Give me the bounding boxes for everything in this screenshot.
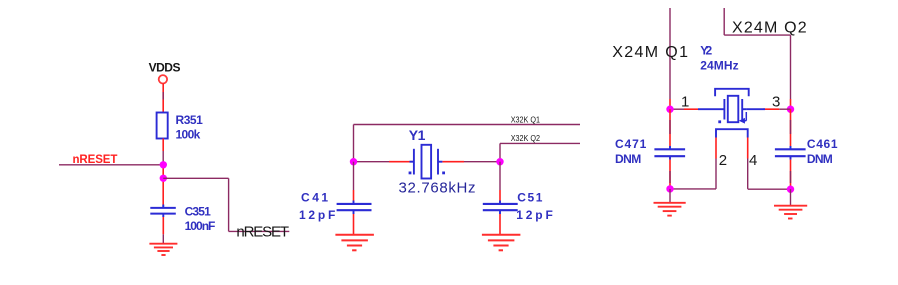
wire C351 to ground [162,234,164,243]
pin stub above junction 1 [669,99,671,109]
junction A [160,161,167,168]
pin 3 of Y2 (red) [763,108,791,110]
crystal Y2 [698,89,765,138]
pin of C51 (bottom) [499,214,501,235]
wire X24M Q1 (vertical from top) [669,8,671,99]
ground (left X24M) [654,203,686,216]
svg-text:100nF: 100nF [185,219,216,233]
svg-text:32.768kHz: 32.768kHz [399,180,476,197]
pin of R351 (bottom) [162,139,164,152]
junction B [160,175,167,182]
ground (C351) [149,244,177,255]
pin number 2 [719,152,727,169]
wire X24M Q2 (vertical from top) [723,8,725,35]
resistor R351 [157,113,168,139]
pin number 3 [772,93,780,110]
junction pin 1 [666,106,673,113]
capacitor C351 [150,205,176,218]
pin of Y1 (right) [442,161,464,163]
wire VDDS to R351 [162,92,164,100]
svg-text:C461: C461 [807,137,838,151]
pin 2 of Y2 (red) [715,138,717,159]
wire X24M Q2 (horizontal) [724,34,790,36]
pin of C351 (bottom) [162,217,164,234]
wire nRESET stub (vertical) [228,178,230,231]
svg-text:2: 2 [719,152,727,169]
pin of C41 (bottom) [353,214,355,235]
wire junction B to nRESET stub (horizontal) [163,177,228,179]
ground (C41) [335,235,374,251]
wire pin4 down [747,159,749,189]
wire left dot to C41 [353,162,355,190]
svg-text:24MHz: 24MHz [700,59,738,73]
svg-text:VDDS: VDDS [149,61,181,75]
svg-text:nRESET: nRESET [236,223,289,240]
net label X32K Q1 [511,114,541,124]
wire Y1 to right dot [464,161,500,163]
pin number 1 [681,93,689,110]
svg-text:C471: C471 [615,137,647,151]
svg-text:1: 1 [681,93,689,110]
wire X32K Q1 (vertical) [353,125,355,162]
pin of R351 (top) [162,83,164,112]
wire X24M Q2 (vertical to pin 3) [790,35,792,99]
wire nRESET horizontal [59,164,163,166]
wire bottom right horizontal [748,188,791,190]
wire X32K Q2 (vertical) [499,143,501,161]
label C351 100nF [185,204,216,233]
junction right (X32K) [496,158,503,165]
capacitor C51 [483,201,518,215]
svg-text:Y2: Y2 [700,44,712,58]
pin of C51 (top) [499,190,501,201]
net label X32K Q2 [511,133,541,143]
power symbol VDDS [159,75,167,83]
wire nRESET stub (bottom horizontal) [229,230,290,232]
svg-text:Y1: Y1 [409,127,426,143]
svg-text:3: 3 [772,93,780,110]
net label VDDS [149,61,181,75]
label Y2 24MHz [700,44,738,73]
wire right dot to C51 [499,162,501,190]
polarity dot right (Y1) [442,172,445,175]
pin stub above junction 3 [790,99,792,109]
pin 4 of Y2 (red) [747,138,749,159]
svg-text:12pF: 12pF [516,208,553,222]
svg-text:C51: C51 [517,191,542,205]
capacitor C471 [654,146,685,160]
svg-text:4: 4 [749,152,757,169]
polarity dot left (Y1) [409,172,412,175]
wire X32K Q1 (horizontal) [354,124,581,126]
net label X24M Q1 [612,44,688,61]
svg-text:R351: R351 [176,113,204,127]
svg-text:X24M Q2: X24M Q2 [732,19,807,36]
capacitor C461 [775,109,806,159]
svg-text:X24M Q1: X24M Q1 [612,44,688,61]
label C471 DNM [615,137,647,166]
net label nRESET (black) [236,223,289,240]
wire X32K Q2 (horizontal) [500,142,580,144]
wire to left ground [669,189,671,203]
wire left dot to Y1 [354,161,390,163]
capacitor C41 [337,201,372,215]
label Y1 [409,127,426,143]
wire to right ground [790,189,792,205]
pin number 4 [749,152,757,169]
junction (left bottom) [666,185,673,192]
polarity arrow (Y2) [741,112,747,122]
wire C461 to junction [790,160,792,190]
wire C471 to junction [669,160,671,189]
pin 1 of Y2 (red) [670,108,698,110]
svg-text:DNM: DNM [615,152,641,166]
svg-text:X32K Q1: X32K Q1 [511,114,541,124]
polarity dot (Y2) [718,120,721,123]
junction left (X32K) [350,158,357,165]
pin of C41 (top) [353,190,355,201]
junction pin 3 [787,106,794,113]
label C51 12pF [516,191,553,223]
ground (C51) [482,235,521,251]
label 32.768kHz [399,180,476,197]
wire R351 to junction [162,151,164,162]
net label nRESET (red) [73,154,118,166]
ground (right X24M) [774,206,807,219]
pin of Y1 (left) [389,161,414,163]
svg-text:C41: C41 [301,191,328,205]
svg-text:DNM: DNM [807,152,833,166]
svg-text:100k: 100k [176,128,201,142]
label C41 12pF [299,191,335,223]
wire junction1 to C471 [669,109,671,146]
label R351 100k [176,113,204,142]
wire between junctions [162,162,164,208]
crystal Y1 [410,145,443,179]
wire bottom left horizontal [670,188,716,190]
junction (right bottom) [787,186,794,193]
svg-text:C351: C351 [185,204,212,218]
svg-text:X32K Q2: X32K Q2 [511,133,541,143]
svg-text:12pF: 12pF [299,208,335,222]
net label X24M Q2 [732,19,807,36]
wire pin2 down [715,159,717,189]
label C461 DNM [807,137,838,166]
